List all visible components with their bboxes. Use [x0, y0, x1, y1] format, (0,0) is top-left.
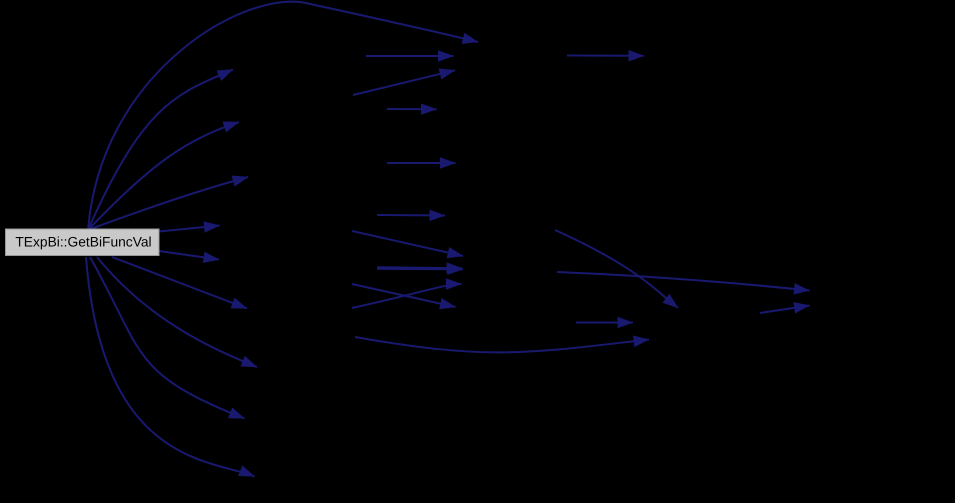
- wire: fan edge 3: [88, 177, 248, 230]
- wire: fan edge 1: [88, 70, 233, 231]
- wire: crossing edge up: [352, 284, 462, 308]
- svg-text:TExpBi::GetBiFuncVal: TExpBi::GetBiFuncVal: [15, 234, 151, 249]
- node TExpBi::GetBiFuncVal: [6, 229, 160, 256]
- wire: mid column double edge a: [377, 267, 462, 268]
- wire: fan edge 4: [159, 226, 220, 232]
- wire: right steep curve: [555, 230, 678, 308]
- wire: mid column edge 2: [353, 70, 455, 95]
- wire: mid column double edge b: [377, 268, 463, 270]
- wire: long sag curve: [355, 337, 649, 352]
- wire: crossing edge down: [352, 284, 456, 307]
- wire: fan edge 9: [86, 257, 255, 477]
- wire: far right short edge: [760, 306, 810, 314]
- wire: mid column edge 5: [377, 214, 445, 217]
- wire: fan edge 6: [112, 257, 247, 309]
- wire: mid column edge 3: [387, 108, 437, 110]
- wire: mid column edge 6: [352, 231, 463, 256]
- wire: fan edge 8: [90, 257, 245, 419]
- wire: fan edge 2: [88, 122, 239, 230]
- wire: right column edge 2: [576, 322, 633, 324]
- wire: fan edge 5: [159, 251, 219, 260]
- wire: right column edge 1: [567, 55, 644, 57]
- wire: edge box to top far node (long arc): [88, 2, 478, 231]
- wire: fan edge 7: [97, 257, 257, 367]
- wire: mid column edge 1: [366, 55, 454, 57]
- wire: long flat edge to far right: [557, 272, 810, 291]
- wire: mid column edge 4: [387, 162, 456, 164]
